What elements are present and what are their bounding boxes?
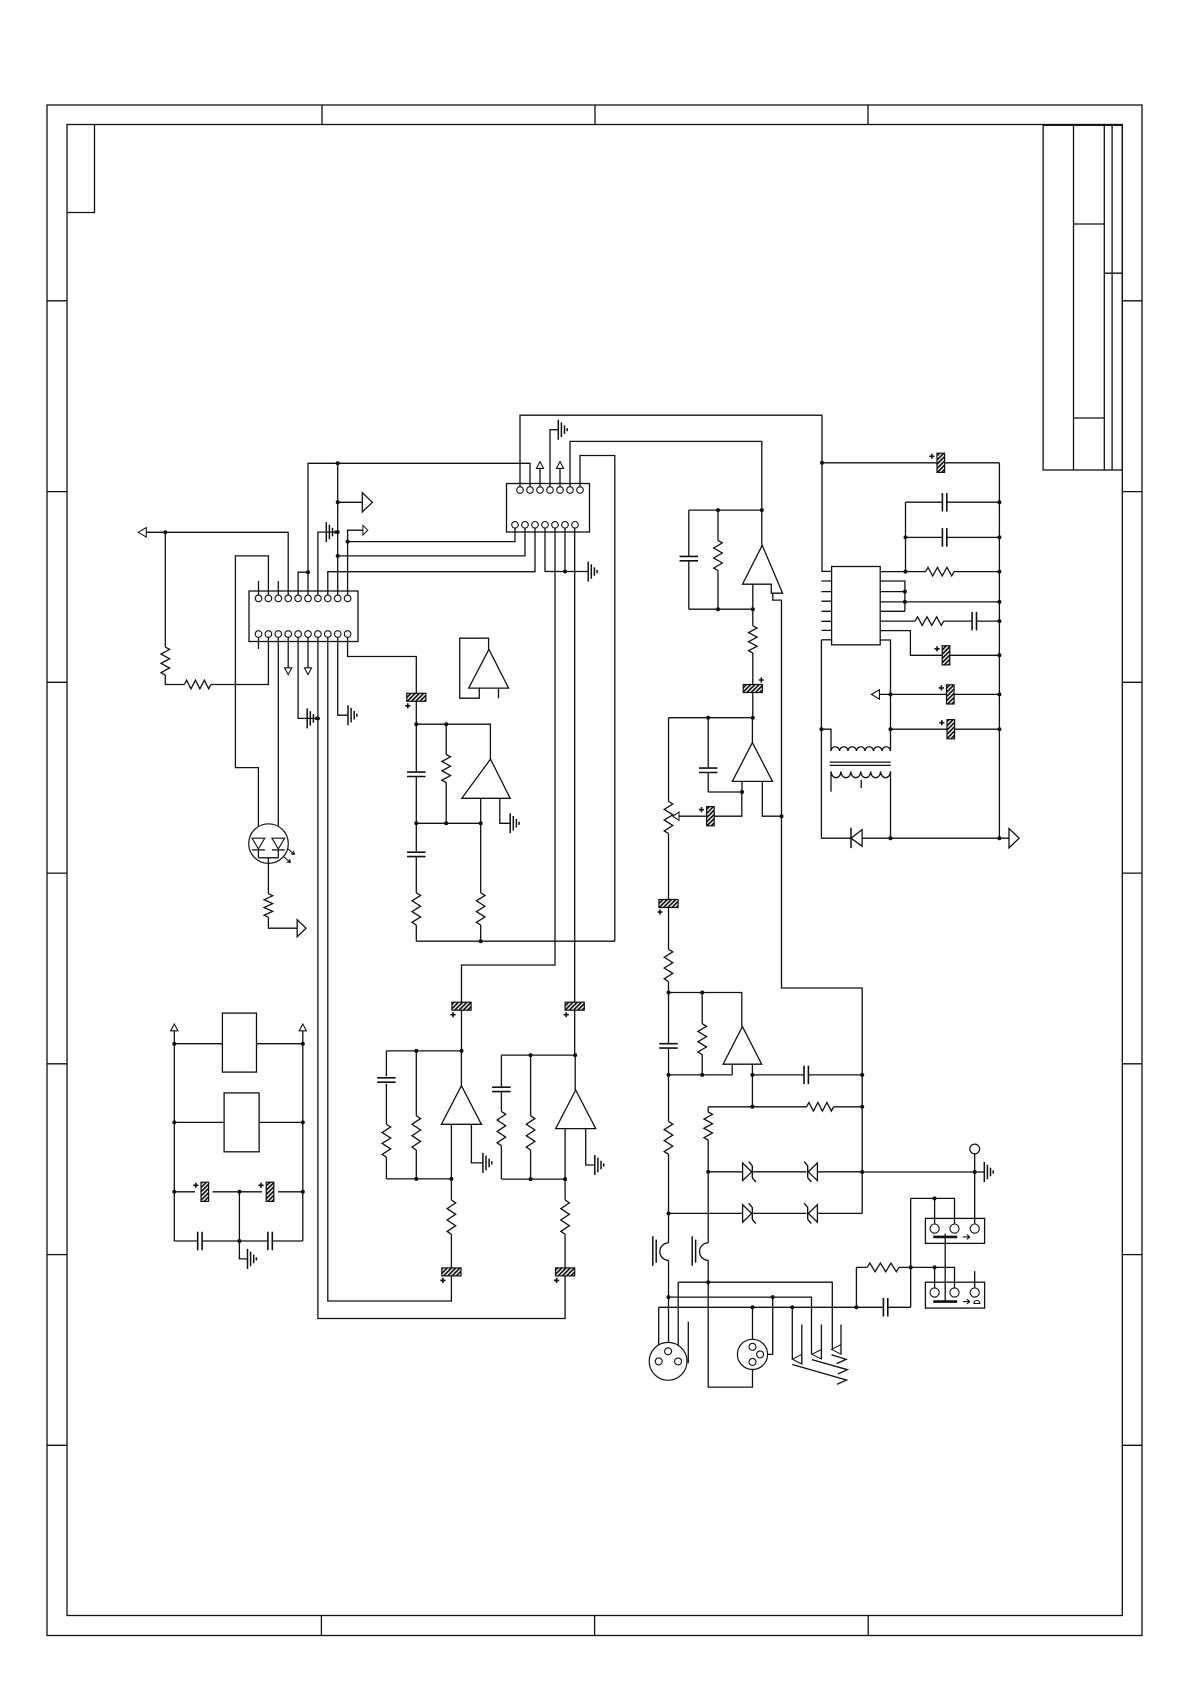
junction bbox=[780, 814, 784, 818]
ground bbox=[348, 705, 357, 725]
capacitor C10 bbox=[942, 493, 946, 512]
U1 top pins bbox=[517, 487, 524, 494]
wire U8 right pin to ground bbox=[500, 798, 510, 823]
signal arrow bbox=[871, 690, 879, 700]
wire bbox=[385, 1051, 387, 1179]
polarized capacitor C32 bbox=[556, 1268, 575, 1276]
wire bbox=[707, 1172, 709, 1243]
polarized capacitor C13 bbox=[942, 646, 950, 665]
capacitor C24 bbox=[804, 1066, 808, 1085]
wire U3 pin8 to transformer bbox=[880, 640, 890, 751]
ground bbox=[558, 420, 567, 440]
wire U5 left pin bbox=[752, 584, 754, 609]
left zone ticks bbox=[47, 301, 67, 1446]
wire TVS row2 bbox=[669, 1212, 863, 1214]
polarized capacitor C21 bbox=[565, 1002, 584, 1010]
wire bbox=[174, 1121, 302, 1123]
junction bbox=[479, 821, 483, 825]
IC U2 connector body bbox=[249, 591, 358, 642]
wire L1 bbox=[678, 1282, 832, 1349]
wire feedback res line bbox=[708, 1106, 862, 1108]
junction bbox=[997, 692, 1001, 696]
wire bbox=[880, 693, 1000, 695]
junction bbox=[750, 1105, 754, 1109]
polarized capacitor C15 bbox=[947, 720, 955, 739]
K2 common bar bbox=[933, 1300, 957, 1303]
transformer T1 primary winding bbox=[831, 747, 891, 751]
capacitor C23 bbox=[659, 1044, 678, 1048]
junction bbox=[997, 727, 1001, 731]
polarized capacitor C34 bbox=[266, 1182, 274, 1201]
wire U8 left pin bbox=[480, 798, 482, 823]
wire bbox=[564, 1179, 566, 1268]
wire bbox=[461, 1010, 463, 1051]
LED light arrows bbox=[284, 849, 295, 863]
wire X1 shell stub bbox=[687, 1322, 689, 1364]
op-amp U6 bbox=[732, 743, 772, 782]
junction bbox=[889, 727, 893, 731]
U2 bottom pins bbox=[255, 631, 262, 638]
right supply bus bbox=[998, 463, 1000, 838]
title block bbox=[1043, 125, 1122, 470]
resistor R4 bbox=[412, 893, 421, 925]
junction bbox=[820, 461, 824, 465]
junction bbox=[301, 1042, 305, 1046]
wire to U1.b2 bbox=[338, 528, 525, 556]
wire bbox=[559, 468, 561, 486]
XLR connector X2 bbox=[737, 1339, 767, 1369]
wire U4 feedback loop bbox=[460, 638, 489, 698]
wire bbox=[307, 717, 318, 719]
wire to small arrow bbox=[348, 530, 363, 541]
junction bbox=[973, 1170, 977, 1174]
wire to chassis ground bbox=[862, 1171, 975, 1173]
wire L3 bbox=[659, 1306, 911, 1308]
junction bbox=[889, 692, 893, 696]
junction bbox=[667, 1073, 671, 1077]
resistor R17 bbox=[704, 1112, 713, 1140]
wire bbox=[905, 502, 907, 571]
junction bbox=[700, 1073, 704, 1077]
junction bbox=[706, 716, 710, 720]
wire U2.t1 stub bbox=[258, 581, 260, 595]
polarized capacitor C19 bbox=[707, 807, 715, 826]
corner reference box bbox=[67, 125, 95, 213]
wire bbox=[707, 1107, 709, 1172]
opto dual LED D6 bbox=[249, 824, 289, 864]
wire U10 right pin bbox=[586, 1129, 595, 1165]
wire U8 inv rail bbox=[416, 822, 480, 824]
polarized capacitor C30 bbox=[442, 1268, 461, 1276]
wire bbox=[445, 724, 447, 823]
junction bbox=[933, 1265, 937, 1269]
wire bbox=[238, 1192, 240, 1241]
junction bbox=[860, 1073, 864, 1077]
wire stage B bottom rail bbox=[501, 1178, 565, 1180]
K2 arrow bbox=[963, 1299, 980, 1304]
wire bbox=[945, 462, 1000, 464]
wire L1 to XLR1 pin3 bbox=[677, 1282, 679, 1358]
polarized capacitor C18 bbox=[659, 900, 678, 908]
resistor R19 bbox=[867, 1263, 899, 1272]
wire bbox=[688, 510, 690, 609]
junction bbox=[716, 508, 720, 512]
polarized capacitor C26 bbox=[407, 693, 426, 701]
K1 common bar bbox=[933, 1236, 957, 1239]
wire stage A bottom rail bbox=[386, 1178, 451, 1180]
wire bbox=[880, 631, 999, 656]
jack J1 contact bars bbox=[653, 1236, 656, 1266]
capacitor C35 bbox=[198, 1232, 202, 1251]
resistor R12 bbox=[714, 540, 723, 570]
wire L3 to XLR1 pin1 bbox=[658, 1307, 660, 1358]
wire output rail bbox=[821, 837, 1009, 839]
junction bbox=[740, 790, 744, 794]
wire U2.t4 net bbox=[146, 532, 288, 595]
junction bbox=[751, 607, 755, 611]
junction bbox=[563, 570, 567, 574]
wire to XLR2 pin3 bbox=[708, 1260, 752, 1387]
wire U5 right pin long route bbox=[773, 593, 862, 1213]
junction bbox=[997, 570, 1001, 574]
U2 top pins bbox=[255, 595, 262, 602]
K1 arrow bbox=[963, 1235, 970, 1240]
wire U2.t9 riser bbox=[337, 463, 339, 595]
wire secondary centre tap bbox=[860, 780, 862, 788]
junction bbox=[854, 1305, 858, 1309]
wire U1.t1 to U3 pin1 bbox=[520, 415, 832, 571]
resistor R8c bbox=[561, 1200, 570, 1234]
wire bbox=[574, 1010, 576, 1055]
power arrow bbox=[556, 462, 563, 469]
resistor R1 bbox=[161, 647, 170, 675]
wire U2.t8 to U1.b3 bbox=[328, 528, 535, 595]
wire bbox=[891, 728, 1000, 730]
junction bbox=[301, 1120, 305, 1124]
output arrow bbox=[1009, 829, 1019, 848]
junction bbox=[237, 1190, 241, 1194]
wire connector bridge A bbox=[911, 1198, 955, 1224]
wire U3 pin to bus bbox=[880, 601, 999, 603]
resistor R11 bbox=[915, 617, 944, 626]
wire U7 right pin bbox=[751, 1064, 753, 1107]
wire bbox=[500, 1055, 502, 1179]
wire U2.b8 long route to stage A bbox=[328, 637, 452, 1301]
junction bbox=[336, 530, 340, 534]
signal arrow bbox=[297, 920, 306, 937]
wire U3 pin to bus bbox=[880, 571, 999, 573]
regulator A1 bbox=[222, 1013, 256, 1072]
wire to ground bbox=[239, 1241, 247, 1259]
trimpot RV1 bbox=[664, 801, 673, 833]
right zone ticks bbox=[1122, 301, 1142, 1446]
wire U7 left pin bbox=[731, 1064, 733, 1075]
junction bbox=[667, 991, 671, 995]
junction bbox=[336, 554, 340, 558]
junction bbox=[346, 540, 350, 544]
junction bbox=[667, 1295, 671, 1299]
U1 bottom pins bbox=[512, 522, 519, 529]
op-amp U9 bbox=[441, 1086, 481, 1125]
wire U1.t2 / U2 t5-t6 net bbox=[308, 463, 530, 595]
op-amp U10 bbox=[556, 1090, 596, 1129]
junction bbox=[414, 1177, 418, 1181]
wire U10 output bbox=[574, 1055, 576, 1090]
wire U2.b9 to ground bbox=[338, 637, 348, 715]
wire bbox=[165, 532, 268, 684]
resistor R6 bbox=[264, 894, 273, 918]
wire U9 right pin bbox=[471, 1124, 483, 1163]
capacitor C31 bbox=[492, 1087, 511, 1091]
resistor R7a bbox=[382, 1124, 391, 1157]
wire U7 inv rail bbox=[669, 1074, 733, 1076]
junction bbox=[771, 1295, 775, 1299]
wire right power rail bbox=[302, 1031, 304, 1241]
wire bbox=[450, 1179, 452, 1268]
wire U9 output bbox=[460, 1051, 462, 1086]
chassis ground bbox=[984, 1162, 993, 1182]
junction bbox=[860, 1170, 864, 1174]
wire trimpot chain bbox=[668, 718, 670, 993]
connector K1 bbox=[925, 1218, 984, 1243]
input arrow bbox=[138, 528, 146, 538]
junction bbox=[172, 1042, 176, 1046]
junction bbox=[444, 821, 448, 825]
terminal circle bbox=[970, 1144, 980, 1154]
wire bbox=[717, 510, 719, 609]
junction bbox=[903, 600, 907, 604]
junction bbox=[573, 1053, 577, 1057]
wire K1-K2 link bbox=[944, 1234, 946, 1302]
wire U2.b6 bbox=[307, 637, 309, 669]
arrow down bbox=[285, 668, 292, 675]
junction bbox=[563, 1177, 567, 1181]
zener D3 bbox=[808, 1163, 817, 1181]
wire R19 line bbox=[856, 1267, 954, 1288]
junction bbox=[819, 727, 823, 731]
wire bbox=[934, 1267, 936, 1288]
transformer T1 secondary winding bbox=[831, 771, 891, 777]
op-amp U7 bbox=[723, 1027, 762, 1065]
ground bbox=[483, 1153, 492, 1173]
capacitor C16 bbox=[680, 556, 699, 560]
wire U4 pin stub bbox=[498, 688, 500, 698]
wire bbox=[855, 1267, 857, 1307]
ground bbox=[595, 1155, 604, 1175]
wire U1.b4 ground line bbox=[545, 528, 588, 571]
wire opto cathodes bbox=[258, 857, 278, 859]
wire to arrow bbox=[338, 501, 363, 503]
wire bbox=[415, 1051, 417, 1179]
wire to node bbox=[752, 609, 754, 718]
junction bbox=[760, 508, 764, 512]
wire U3 pins bridge bbox=[880, 581, 905, 611]
IC U1 connector body bbox=[507, 484, 590, 533]
wire U6 output bbox=[751, 718, 753, 743]
capacitor C22 bbox=[699, 768, 718, 772]
polarized capacitor C17 bbox=[743, 685, 762, 693]
junction bbox=[479, 939, 483, 943]
capacitor C36 bbox=[268, 1232, 272, 1251]
wire L3 to XLR2 pinT bbox=[752, 1307, 754, 1343]
zener D5 bbox=[808, 1205, 817, 1223]
signal arrow bbox=[362, 493, 372, 512]
switch pole 1 bbox=[792, 1354, 802, 1364]
wire feedback cap line bbox=[752, 1074, 862, 1076]
junction bbox=[529, 1053, 533, 1057]
junction bbox=[172, 1190, 176, 1194]
resistor R15 bbox=[698, 1024, 707, 1055]
capacitor C29 bbox=[377, 1078, 396, 1082]
junction bbox=[163, 530, 167, 534]
wire U2.b3 to opto bbox=[277, 637, 279, 838]
wire U2.b10 to C26 bbox=[348, 637, 417, 694]
trimpot wiper arrow bbox=[673, 812, 679, 820]
wire U1.b6 bbox=[564, 528, 566, 571]
U3 left pin stubs bbox=[821, 581, 831, 630]
wire secondary left stub bbox=[830, 771, 832, 791]
wire U5 feedback top rail bbox=[689, 509, 762, 511]
capacitor C11 bbox=[942, 528, 946, 547]
junction bbox=[336, 461, 340, 465]
switch pole 2 bbox=[812, 1350, 822, 1360]
wire U2.b5 to ground bbox=[298, 637, 307, 718]
wire U6 output rail bbox=[669, 717, 753, 719]
power arrow bbox=[536, 462, 543, 469]
wire U10 left pin bbox=[564, 1129, 566, 1180]
wire U2.t3 stub bbox=[277, 581, 279, 595]
junction bbox=[997, 535, 1001, 539]
wire U6 left pin bbox=[741, 781, 743, 792]
ground bbox=[588, 562, 597, 582]
resistor R10 bbox=[926, 567, 955, 576]
junction bbox=[909, 1265, 913, 1269]
wire U6 right pin bbox=[762, 781, 781, 816]
jack J2 spring contact bbox=[700, 1243, 709, 1260]
wire left power rail bbox=[173, 1031, 175, 1241]
junction bbox=[997, 653, 1001, 657]
wire U1.b5 to stage A bbox=[462, 528, 556, 1002]
jack J2 contact bars bbox=[692, 1236, 695, 1266]
wire bbox=[415, 702, 417, 724]
wire U2.t2 to opto bbox=[235, 556, 268, 838]
junction bbox=[751, 1305, 755, 1309]
junction bbox=[933, 1196, 937, 1200]
resistor R18 bbox=[664, 1121, 673, 1154]
wire bbox=[880, 620, 999, 622]
junction bbox=[904, 570, 908, 574]
wire secondary right to rail bbox=[890, 771, 892, 838]
junction bbox=[716, 607, 720, 611]
junction bbox=[751, 716, 755, 720]
junction bbox=[706, 1170, 710, 1174]
wire to XLR1 pin2 bbox=[668, 1260, 670, 1348]
junction bbox=[700, 991, 704, 995]
junction bbox=[997, 600, 1001, 604]
wire wiper to U6 inv bbox=[679, 792, 742, 816]
wire U2.b1 stub bbox=[258, 637, 260, 649]
wire bbox=[668, 1213, 670, 1243]
ground bbox=[307, 708, 316, 728]
capacitor C12 bbox=[972, 612, 976, 631]
capacitor C28 bbox=[407, 852, 426, 856]
wire bbox=[934, 1198, 936, 1224]
polarized capacitor C14 bbox=[947, 685, 955, 704]
wire input chain bbox=[668, 1075, 670, 1214]
wire bottom return bbox=[416, 940, 615, 942]
resistor R7c bbox=[447, 1200, 456, 1234]
resistor R16 bbox=[807, 1103, 834, 1112]
op-amp U8 bbox=[462, 759, 510, 798]
junction bbox=[706, 1280, 710, 1284]
wire +V rail to C9 bbox=[822, 462, 937, 464]
junction bbox=[172, 1120, 176, 1124]
small signal arrow bbox=[363, 525, 368, 535]
wire U1.t7 long riser bbox=[580, 456, 615, 942]
wire bbox=[530, 1055, 532, 1179]
resistor R3 bbox=[442, 755, 451, 783]
wire stub bbox=[974, 1271, 976, 1288]
zener D2 bbox=[743, 1163, 752, 1181]
junction bbox=[336, 500, 340, 504]
wire U1.b7 to stage B bbox=[574, 528, 576, 1002]
junction bbox=[903, 590, 907, 594]
wire bbox=[910, 1198, 912, 1307]
transformer core bbox=[830, 762, 891, 765]
wire terminal to connector bbox=[974, 1154, 976, 1224]
junction bbox=[750, 1073, 754, 1077]
polarized capacitor C33 bbox=[201, 1182, 209, 1201]
wire U6 inv rail bbox=[708, 791, 742, 793]
wire U2.b4 bbox=[287, 637, 289, 669]
wire bbox=[906, 536, 1000, 538]
junction bbox=[667, 1211, 671, 1215]
wire bbox=[174, 1043, 302, 1045]
wire U9 left pin bbox=[450, 1124, 452, 1179]
bottom zone ticks bbox=[321, 1616, 868, 1636]
ground bbox=[248, 1249, 257, 1269]
wire bottom rail bbox=[174, 1240, 302, 1242]
polarized capacitor C9 bbox=[937, 453, 945, 472]
wire bbox=[480, 823, 482, 941]
capacitor C27 bbox=[407, 772, 426, 776]
wire L2 bbox=[669, 1297, 812, 1354]
wire U7 output rail bbox=[669, 993, 742, 1027]
XLR connector X1 bbox=[649, 1342, 687, 1380]
junction bbox=[316, 716, 320, 720]
wire bbox=[174, 1191, 302, 1193]
junction bbox=[529, 1177, 533, 1181]
diode D1 bbox=[851, 830, 862, 847]
wire stage B top rail bbox=[501, 1054, 575, 1056]
resistor R2 bbox=[184, 680, 211, 689]
resistor R14 bbox=[664, 949, 673, 981]
resistor R8a bbox=[497, 1111, 506, 1145]
wire U2.b7 long route to stage B bbox=[318, 637, 565, 1318]
junction bbox=[414, 821, 418, 825]
sheet inner border bbox=[67, 125, 1122, 1616]
wire bbox=[539, 468, 541, 486]
wire to primary left bbox=[821, 729, 831, 751]
wire bbox=[906, 501, 1000, 503]
junction bbox=[889, 836, 893, 840]
wire bbox=[415, 823, 417, 941]
junction bbox=[904, 535, 908, 539]
junction bbox=[301, 1190, 305, 1194]
resistor R5 bbox=[476, 893, 485, 925]
power arrow bbox=[299, 1024, 306, 1031]
wire switch pole 1 bbox=[791, 1307, 793, 1359]
